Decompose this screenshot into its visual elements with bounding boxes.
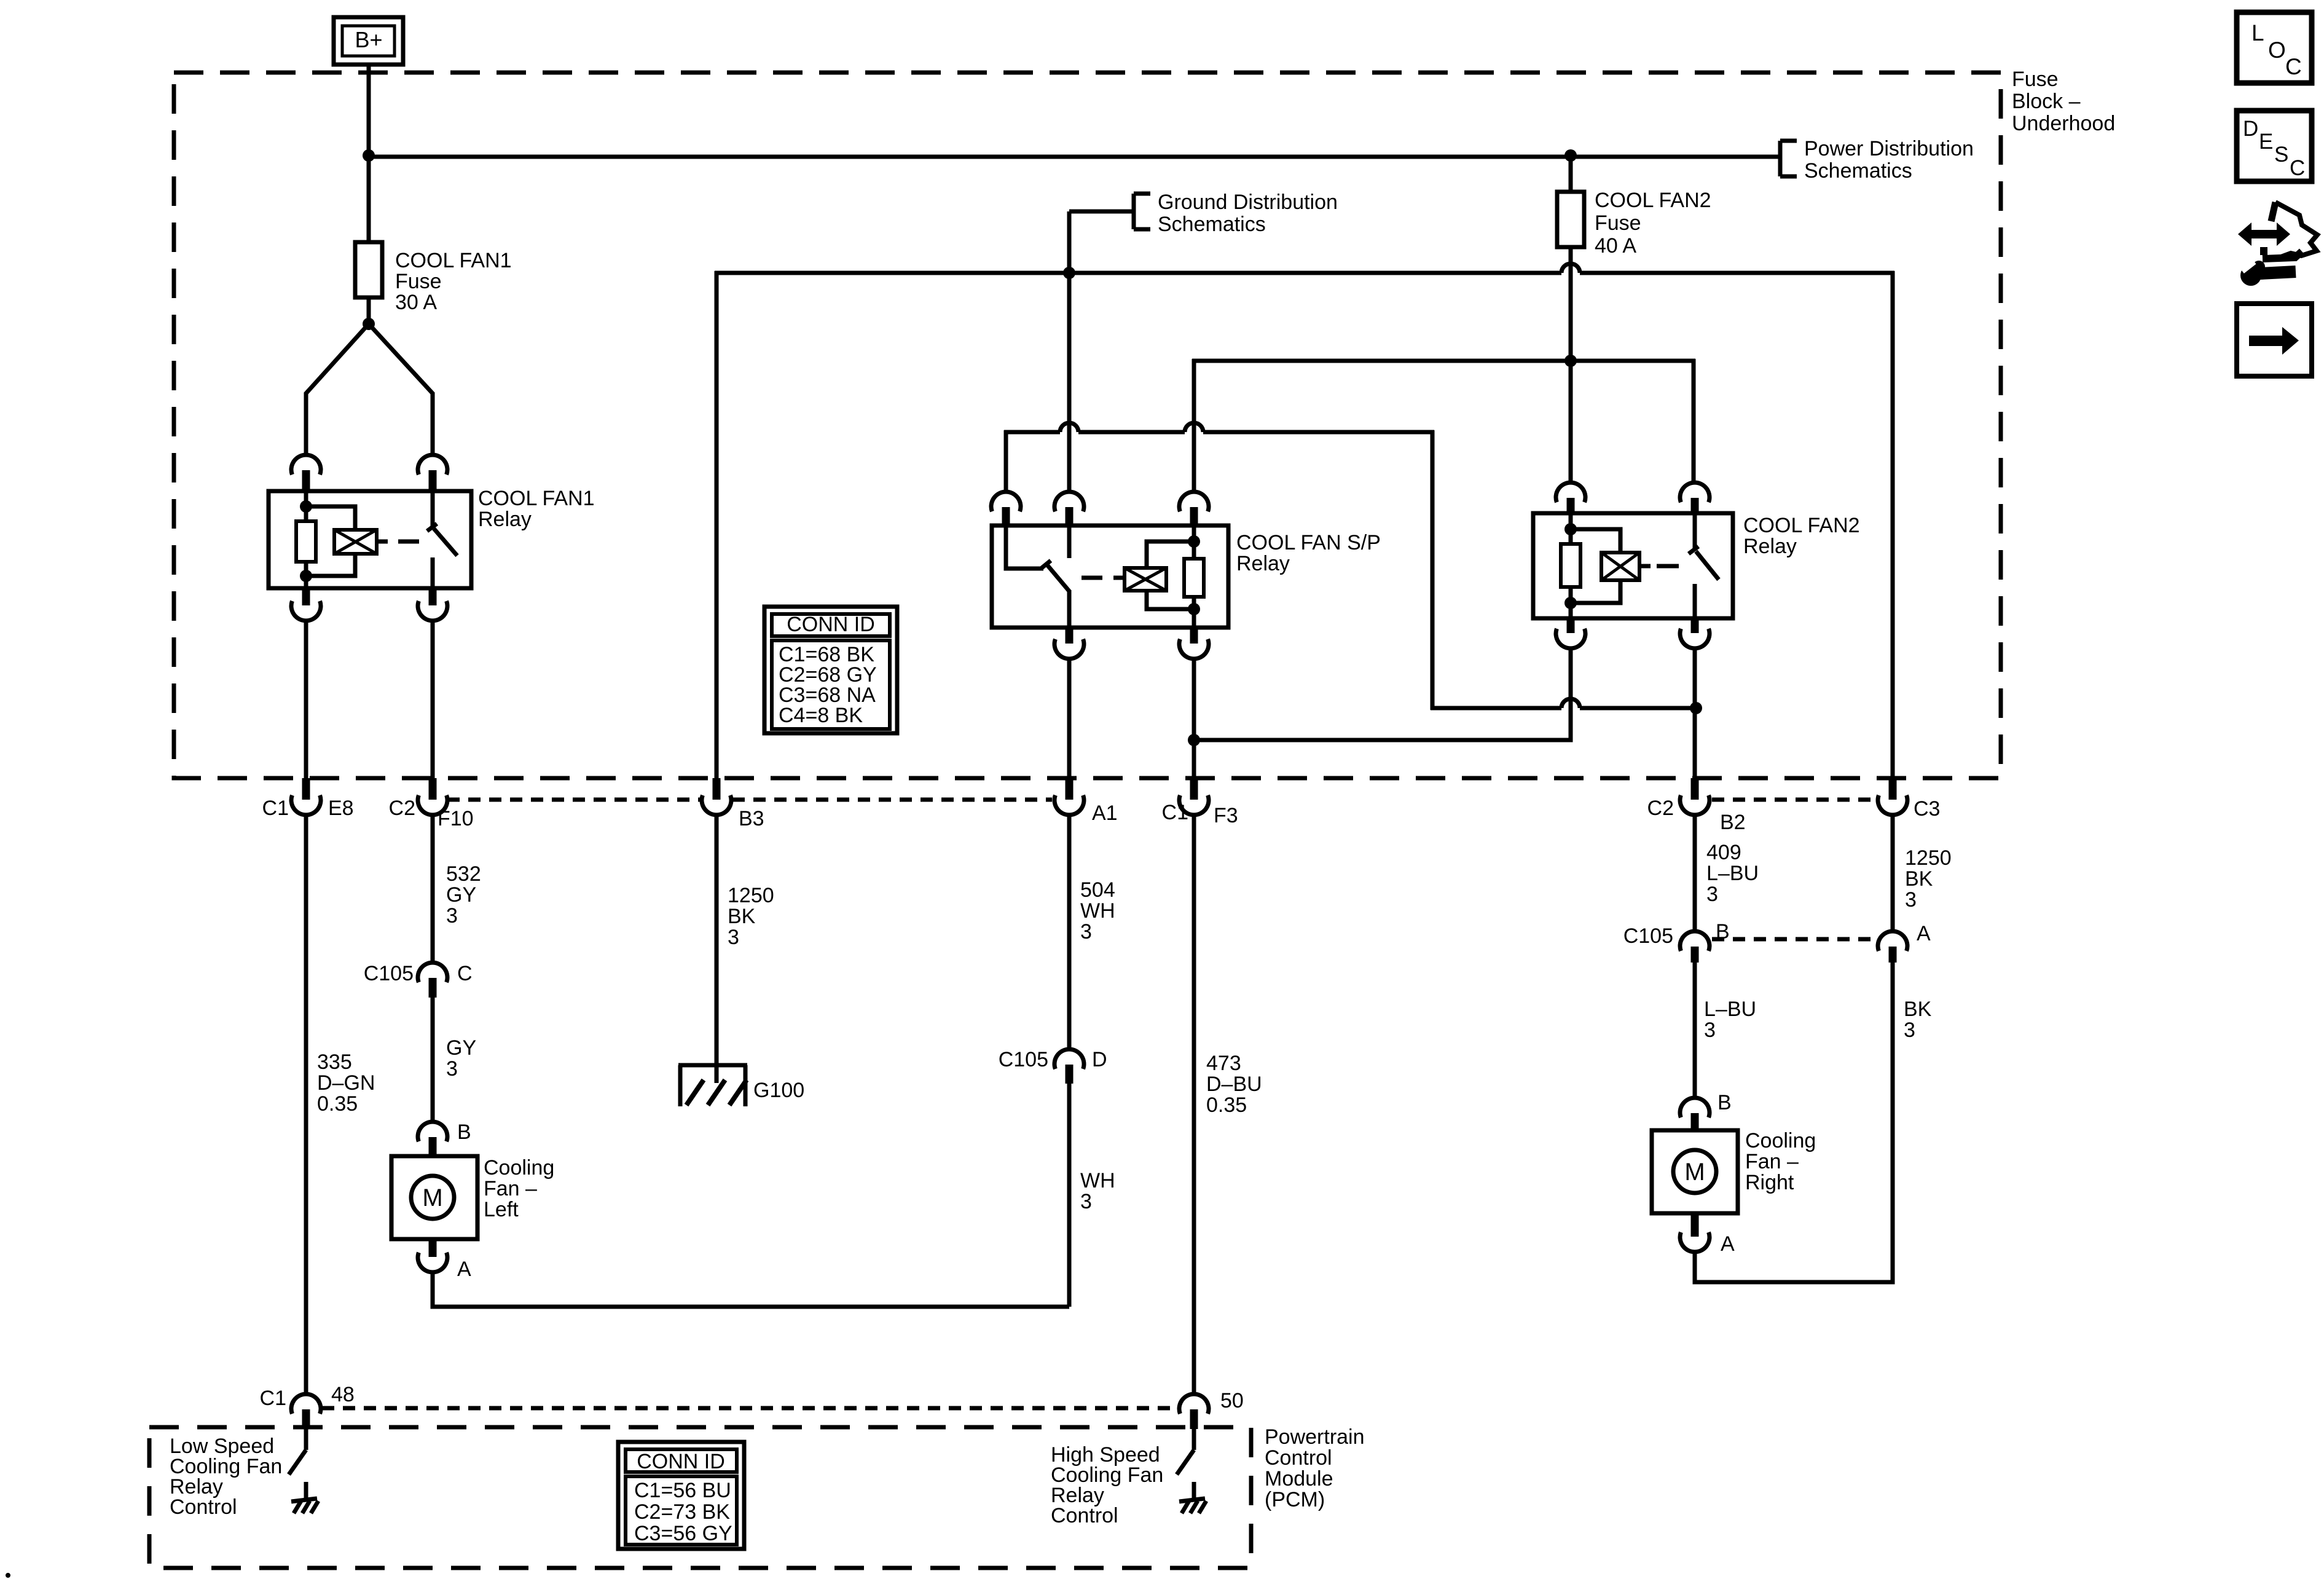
svg-text:Control: Control: [1051, 1504, 1118, 1527]
wire 532 GY to C105: [431, 814, 435, 963]
connector arc S-P relay pin2 top: [1054, 492, 1084, 526]
svg-text:C1: C1: [1162, 801, 1188, 824]
switch low speed relay control driver: [289, 1429, 306, 1475]
wire ground rail left drop to B3: [715, 271, 719, 778]
wire Y split right branch: [369, 324, 433, 455]
svg-text:O: O: [2268, 37, 2286, 63]
svg-text:Powertrain: Powertrain: [1265, 1425, 1365, 1449]
svg-text:F10: F10: [438, 807, 474, 830]
node FAN2 resistor top: [1564, 523, 1577, 535]
wire ground rail right drop to C3: [1891, 271, 1895, 778]
label 1250 BK 3 left: [728, 884, 774, 949]
svg-text:A: A: [457, 1258, 471, 1281]
wire L-BU to fan right: [1693, 963, 1697, 1098]
svg-text:L: L: [2251, 20, 2264, 45]
label A1: [1092, 801, 1118, 825]
connector pin 30 arc FAN1 relay left bottom: [291, 588, 321, 621]
label 473 D-BU 0.35: [1206, 1052, 1262, 1117]
label Powertrain Control Module PCM: [1265, 1425, 1365, 1511]
connector C1 pin E8: [291, 778, 321, 815]
wire fan right return loop: [1695, 963, 1893, 1282]
svg-text:3: 3: [1080, 920, 1092, 943]
node B2 wire junction: [1690, 702, 1702, 714]
svg-text:3: 3: [446, 1057, 458, 1081]
svg-text:C105: C105: [1623, 924, 1673, 948]
node FAN1 resistor top: [300, 500, 312, 513]
label fan left pin A: [457, 1258, 471, 1281]
svg-text:COOL FAN1: COOL FAN1: [395, 249, 512, 272]
svg-text:48: 48: [331, 1383, 355, 1406]
wire FAN1 coil-to-switch dashed link: [398, 540, 419, 544]
label 532 GY 3: [446, 862, 481, 927]
wire FAN1 relay switch out to F10: [431, 620, 435, 778]
label fan right pin B: [1717, 1091, 1732, 1114]
svg-text:M: M: [1684, 1159, 1705, 1186]
connector arc S-P relay pin3 top: [1179, 492, 1209, 526]
svg-text:40 A: 40 A: [1595, 234, 1636, 258]
resistor FAN2 relay: [1561, 513, 1580, 618]
wire rail to fuse2: [1569, 157, 1573, 192]
label GY 3: [446, 1036, 476, 1081]
wire WH to fan left return: [1067, 1084, 1072, 1307]
svg-text:C1: C1: [260, 1387, 286, 1410]
node Y-split: [363, 318, 375, 330]
svg-text:C: C: [457, 962, 473, 985]
wire S-P switch out to A1: [1067, 658, 1072, 778]
svg-text:Fuse: Fuse: [2012, 68, 2059, 91]
connector arc S-P relay pin1 top: [991, 492, 1021, 526]
svg-text:B+: B+: [355, 27, 382, 52]
battery positive terminal B+: [334, 17, 403, 65]
svg-text:30 A: 30 A: [395, 291, 437, 314]
connector C3 pin: [1878, 778, 1907, 815]
svg-text:Fan –: Fan –: [1745, 1150, 1799, 1173]
connector arc S-P relay pin F3 bottom: [1179, 628, 1209, 659]
svg-text:B3: B3: [739, 807, 764, 830]
node rail fuse2 tap: [1564, 149, 1577, 162]
coil FAN1 relay: [306, 506, 388, 576]
label Fuse Block Underhood: [2012, 68, 2115, 135]
motor Cooling Fan Left: [391, 1156, 477, 1239]
svg-text:(PCM): (PCM): [1265, 1488, 1325, 1511]
svg-text:C3: C3: [1914, 797, 1940, 821]
svg-text:0.35: 0.35: [1206, 1093, 1247, 1117]
connector PCM pin 48: [291, 1394, 321, 1429]
svg-text:50: 50: [1220, 1389, 1244, 1412]
wire fan left return: [433, 1272, 1069, 1307]
icon next arrow box: [2237, 304, 2312, 376]
svg-text:C2: C2: [389, 797, 415, 820]
wire fuse2 down to FAN2 relay: [1569, 247, 1573, 483]
svg-text:3: 3: [446, 904, 458, 927]
svg-text:GY: GY: [446, 1036, 476, 1060]
label C2 B2: [1647, 797, 1746, 834]
label Low Speed Cooling Fan Relay Control: [170, 1435, 282, 1519]
svg-text:WH: WH: [1080, 1169, 1115, 1192]
svg-text:C: C: [2285, 54, 2302, 79]
svg-text:Schematics: Schematics: [1804, 159, 1912, 183]
wire 335 D-GN circuit: [304, 814, 308, 1395]
svg-text:Relay: Relay: [1236, 552, 1290, 575]
node fuse2 rail tap: [1564, 355, 1577, 367]
label Power Distribution Schematics: [1804, 137, 1974, 183]
ground G100: [678, 1065, 747, 1106]
svg-text:COOL FAN2: COOL FAN2: [1595, 189, 1711, 212]
node B+ rail tap: [363, 149, 375, 162]
label C3: [1914, 797, 1940, 821]
motor Cooling Fan Right: [1652, 1130, 1738, 1213]
svg-text:D–BU: D–BU: [1206, 1073, 1262, 1096]
svg-text:Fan –: Fan –: [484, 1177, 537, 1200]
wire fuse1 to split: [367, 297, 371, 324]
wire Y split left branch: [306, 324, 369, 455]
ground PCM low side: [291, 1482, 318, 1513]
label fan right pin A: [1721, 1232, 1735, 1256]
label C2 F10: [389, 797, 474, 830]
svg-text:3: 3: [1080, 1190, 1092, 1213]
wire power branch rail 587: [1192, 359, 1695, 363]
svg-text:E: E: [2259, 130, 2273, 154]
label 50: [1220, 1389, 1244, 1412]
svg-text:Control: Control: [1265, 1446, 1332, 1470]
switch FAN2 relay contacts: [1689, 513, 1719, 618]
wire rail drop at x2331: [1431, 430, 1435, 710]
connector pin 87 arc FAN1 relay right bottom: [418, 588, 447, 621]
svg-text:GY: GY: [446, 883, 476, 907]
connector pin 86 arc FAN1 relay left top: [291, 455, 321, 491]
label COOL FAN2 Relay: [1743, 514, 1860, 558]
wire ground rail: [715, 264, 1894, 273]
svg-text:1250: 1250: [1905, 846, 1952, 870]
svg-text:1250: 1250: [728, 884, 774, 907]
label B3: [739, 807, 764, 830]
dashed connector face line C2: [447, 798, 1052, 802]
svg-text:3: 3: [1905, 888, 1917, 912]
wire B+ power rail: [369, 155, 1780, 159]
wire FAN1 relay coil to E8: [304, 620, 308, 778]
svg-text:A1: A1: [1092, 801, 1118, 825]
connector fan right pin B: [1680, 1098, 1710, 1130]
connector pin 85 arc FAN1 relay right top: [418, 455, 447, 491]
svg-text:A: A: [1721, 1232, 1735, 1256]
svg-text:0.35: 0.35: [317, 1092, 358, 1116]
svg-text:D: D: [1092, 1048, 1107, 1071]
wire FAN2 switch out to B2: [1693, 648, 1697, 778]
svg-text:COOL FAN1: COOL FAN1: [478, 487, 595, 510]
svg-text:C1=56 BU: C1=56 BU: [634, 1479, 731, 1502]
wire fine dash PCM connector face: [322, 1406, 1178, 1411]
svg-text:L–BU: L–BU: [1706, 862, 1759, 885]
svg-text:Cooling: Cooling: [1745, 1129, 1816, 1152]
svg-text:M: M: [422, 1184, 442, 1211]
relay COOL FAN2 box: [1533, 513, 1733, 618]
wire 1250 BK from C3: [1891, 814, 1895, 932]
svg-text:473: 473: [1206, 1052, 1241, 1075]
label C1 E8: [262, 797, 354, 820]
node ground rail tap: [1063, 267, 1075, 279]
connector C2 pin F10: [418, 778, 447, 815]
svg-text:C2=73 BK: C2=73 BK: [634, 1500, 730, 1524]
svg-text:Underhood: Underhood: [2012, 112, 2115, 135]
svg-text:COOL FAN S/P: COOL FAN S/P: [1236, 531, 1381, 554]
relay COOL FAN S-P box: [992, 526, 1228, 628]
svg-text:Right: Right: [1745, 1171, 1794, 1194]
connector C105 pin D: [1054, 1049, 1084, 1084]
wire B+ feed down: [367, 65, 371, 242]
wire BK from C105 A: [1904, 998, 1932, 1042]
resistor FAN1 relay: [296, 491, 316, 588]
icon LOC box: [2237, 12, 2312, 83]
svg-text:532: 532: [446, 862, 481, 886]
svg-text:Fuse: Fuse: [395, 270, 442, 293]
svg-text:D: D: [2243, 117, 2258, 141]
svg-text:Left: Left: [484, 1198, 519, 1221]
connector C105 pin B: [1680, 931, 1710, 963]
svg-text:3: 3: [1904, 1018, 1915, 1042]
wire ground tap down to S-P relay: [1067, 211, 1072, 492]
label fan left pin B: [457, 1120, 471, 1144]
wire cross link to B2 node: [1431, 699, 1696, 708]
icon wrench double arrow: [2238, 202, 2317, 286]
node FAN1 resistor bottom: [300, 570, 312, 582]
coil S-P relay: [1113, 541, 1194, 609]
svg-text:Module: Module: [1265, 1467, 1333, 1490]
connector arc FAN2 relay switch pin top: [1680, 482, 1710, 513]
svg-text:504: 504: [1080, 878, 1115, 902]
label C1 48: [260, 1383, 355, 1410]
svg-text:Control: Control: [170, 1495, 237, 1519]
svg-text:B: B: [1717, 1091, 1732, 1114]
connector fan left pin A: [418, 1239, 447, 1272]
svg-text:E8: E8: [328, 797, 354, 820]
fuse block underhood dashed border: [174, 73, 2001, 778]
svg-text:A: A: [1917, 922, 1931, 945]
svg-text:C105: C105: [364, 962, 414, 985]
svg-text:F3: F3: [1214, 804, 1238, 827]
connector C2 pin B2: [1680, 778, 1710, 815]
label 504 WH 3: [1080, 878, 1115, 943]
svg-text:Ground Distribution: Ground Distribution: [1158, 191, 1338, 214]
label Cooling Fan Right: [1745, 1129, 1816, 1194]
connector arc S-P relay pin A1 bottom: [1054, 628, 1084, 659]
svg-text:C2: C2: [1647, 797, 1674, 820]
connector C2 pin A1: [1054, 778, 1084, 815]
fuse COOL FAN1 30A: [355, 242, 382, 297]
svg-text:Schematics: Schematics: [1158, 213, 1266, 236]
coil FAN2 relay: [1571, 529, 1651, 603]
label High Speed Cooling Fan Relay Control: [1051, 1443, 1163, 1527]
table CONN ID PCM: [618, 1442, 744, 1549]
dashed connector face line C105: [1712, 937, 1875, 942]
svg-text:CONN ID: CONN ID: [787, 613, 875, 636]
label COOL FAN1 Fuse 30A: [395, 249, 512, 314]
svg-text:B: B: [457, 1120, 471, 1144]
connector C1 pin F3: [1179, 778, 1209, 815]
label COOL FAN1 Relay: [478, 487, 595, 531]
wire branch down to S-P coil pin: [1192, 359, 1196, 492]
svg-text:3: 3: [1706, 883, 1718, 906]
label 1250 BK 3 right: [1905, 846, 1952, 912]
connector arc FAN2 relay coil pin top: [1556, 482, 1585, 513]
stray mark bottom left: [6, 1573, 10, 1578]
label 335 D-GN 0.35: [317, 1050, 375, 1116]
svg-text:BK: BK: [1905, 867, 1933, 891]
svg-text:Relay: Relay: [478, 508, 532, 531]
label Cooling Fan Left: [484, 1156, 554, 1221]
svg-text:C: C: [2290, 156, 2305, 180]
svg-text:3: 3: [1704, 1018, 1716, 1042]
label C105 C: [364, 962, 473, 985]
svg-text:C3=56 GY: C3=56 GY: [634, 1522, 732, 1545]
svg-text:L–BU: L–BU: [1704, 998, 1756, 1021]
label C105 B A: [1623, 920, 1931, 948]
svg-text:Cooling: Cooling: [484, 1156, 554, 1179]
label C1 F3: [1162, 801, 1238, 827]
icon DESC box: [2237, 111, 2312, 181]
connector PCM pin 50: [1179, 1394, 1209, 1429]
wire branch down to FAN2 switch pin: [1692, 359, 1696, 483]
wire 409 L-BU to C105 B: [1693, 814, 1697, 932]
svg-text:D–GN: D–GN: [317, 1071, 375, 1095]
svg-text:335: 335: [317, 1050, 352, 1074]
svg-text:409: 409: [1706, 841, 1741, 864]
node S-P coil bottom: [1188, 603, 1200, 615]
node S-P coil top: [1188, 535, 1200, 548]
switch high speed relay control driver: [1177, 1429, 1194, 1475]
svg-text:B2: B2: [1720, 811, 1746, 834]
connector fan right pin A: [1680, 1213, 1710, 1252]
wire S-P coil-to-switch dashed link: [1082, 576, 1102, 580]
node FAN2 resistor bottom: [1564, 597, 1577, 609]
relay COOL FAN1 box: [269, 491, 471, 588]
connector arc FAN2 relay coil pin bottom: [1556, 618, 1585, 648]
ground PCM high side: [1179, 1482, 1206, 1513]
svg-text:C105: C105: [999, 1048, 1048, 1071]
svg-text:C4=8 BK: C4=8 BK: [779, 704, 863, 727]
wire 473 D-BU circuit: [1192, 814, 1196, 1395]
switch S-P relay contacts: [1006, 526, 1070, 628]
svg-text:S: S: [2274, 143, 2288, 167]
wire S-P pin1 rail: [1004, 423, 1434, 492]
switch FAN1 relay contacts: [427, 491, 457, 588]
svg-text:C1: C1: [262, 797, 289, 820]
node F3 junction: [1188, 734, 1200, 746]
resistor S-P relay: [1184, 526, 1204, 628]
label WH 3: [1080, 1169, 1115, 1213]
svg-text:Block –: Block –: [2012, 90, 2081, 113]
label Ground Distribution Schematics: [1158, 191, 1338, 236]
wire S-P coil out to F3: [1192, 658, 1196, 778]
label C105 D: [999, 1048, 1107, 1071]
connector C1 pin B3: [702, 778, 731, 815]
label G100: [753, 1079, 804, 1102]
svg-text:G100: G100: [753, 1079, 804, 1102]
svg-text:WH: WH: [1080, 899, 1115, 923]
table CONN ID fuse block: [764, 607, 897, 733]
svg-text:COOL FAN2: COOL FAN2: [1743, 514, 1860, 537]
wire FAN2 coil return link: [1194, 647, 1571, 740]
connector arc FAN2 relay switch pin bottom: [1680, 618, 1710, 648]
svg-text:Relay: Relay: [1743, 535, 1797, 558]
module PCM dashed box: [149, 1427, 1251, 1568]
svg-text:3: 3: [728, 926, 739, 949]
wire FAN2 coil-to-switch dashed link: [1657, 564, 1679, 569]
label 409 L-BU 3: [1706, 841, 1759, 906]
svg-text:CONN ID: CONN ID: [637, 1450, 725, 1473]
pointer Power Distribution Schematics: [1780, 141, 1797, 176]
svg-text:BK: BK: [1904, 998, 1932, 1021]
label COOL FAN2 Fuse 40A: [1595, 189, 1711, 258]
connector C105 pin A: [1878, 931, 1907, 963]
connector fan left pin B: [418, 1122, 447, 1156]
svg-text:BK: BK: [728, 905, 756, 928]
svg-text:Power Distribution: Power Distribution: [1804, 137, 1974, 160]
wire 504 WH to C105 D: [1067, 814, 1072, 1050]
connector C105 pin C: [418, 963, 447, 998]
label L-BU 3: [1704, 998, 1756, 1042]
wire GY to fan motor: [431, 998, 435, 1122]
svg-text:Fuse: Fuse: [1595, 211, 1641, 235]
label COOL FAN S-P Relay: [1236, 531, 1381, 575]
pointer Ground Distribution Schematics: [1069, 194, 1150, 229]
dashed connector face line C2-C3: [1712, 798, 1875, 802]
fuse COOL FAN2 40A: [1557, 192, 1584, 247]
wire 1250 BK to G100: [715, 814, 719, 1083]
